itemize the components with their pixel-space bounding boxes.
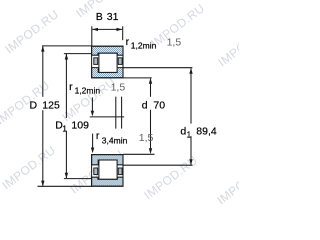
svg-text:1,2min: 1,2min	[75, 86, 101, 96]
svg-text:d: d	[180, 125, 186, 137]
svg-text:109: 109	[71, 120, 89, 132]
svg-text:D: D	[30, 100, 38, 112]
svg-text:r: r	[96, 130, 100, 142]
svg-text:B: B	[96, 11, 103, 23]
svg-text:1,5: 1,5	[139, 132, 154, 144]
svg-text:89,4: 89,4	[196, 125, 217, 137]
svg-text:1: 1	[62, 125, 67, 134]
svg-text:IMPOD.RU: IMPOD.RU	[214, 158, 239, 207]
svg-text:r: r	[69, 81, 73, 93]
svg-text:r: r	[126, 36, 130, 48]
svg-text:31: 31	[107, 11, 119, 23]
svg-text:125: 125	[42, 100, 60, 112]
svg-text:1,5: 1,5	[111, 82, 126, 94]
svg-text:IMPOD.RU: IMPOD.RU	[215, 20, 239, 69]
svg-text:IMPOD.RU: IMPOD.RU	[0, 143, 58, 192]
svg-text:1,2min: 1,2min	[131, 40, 157, 50]
svg-text:1: 1	[187, 130, 192, 139]
svg-text:IMPOD.RU: IMPOD.RU	[73, 0, 132, 20]
svg-text:IMPOD.RU: IMPOD.RU	[2, 7, 61, 56]
svg-text:d: d	[142, 99, 148, 111]
svg-text:3,4min: 3,4min	[102, 136, 128, 146]
svg-text:70: 70	[153, 99, 165, 111]
svg-text:1,5: 1,5	[167, 37, 182, 49]
